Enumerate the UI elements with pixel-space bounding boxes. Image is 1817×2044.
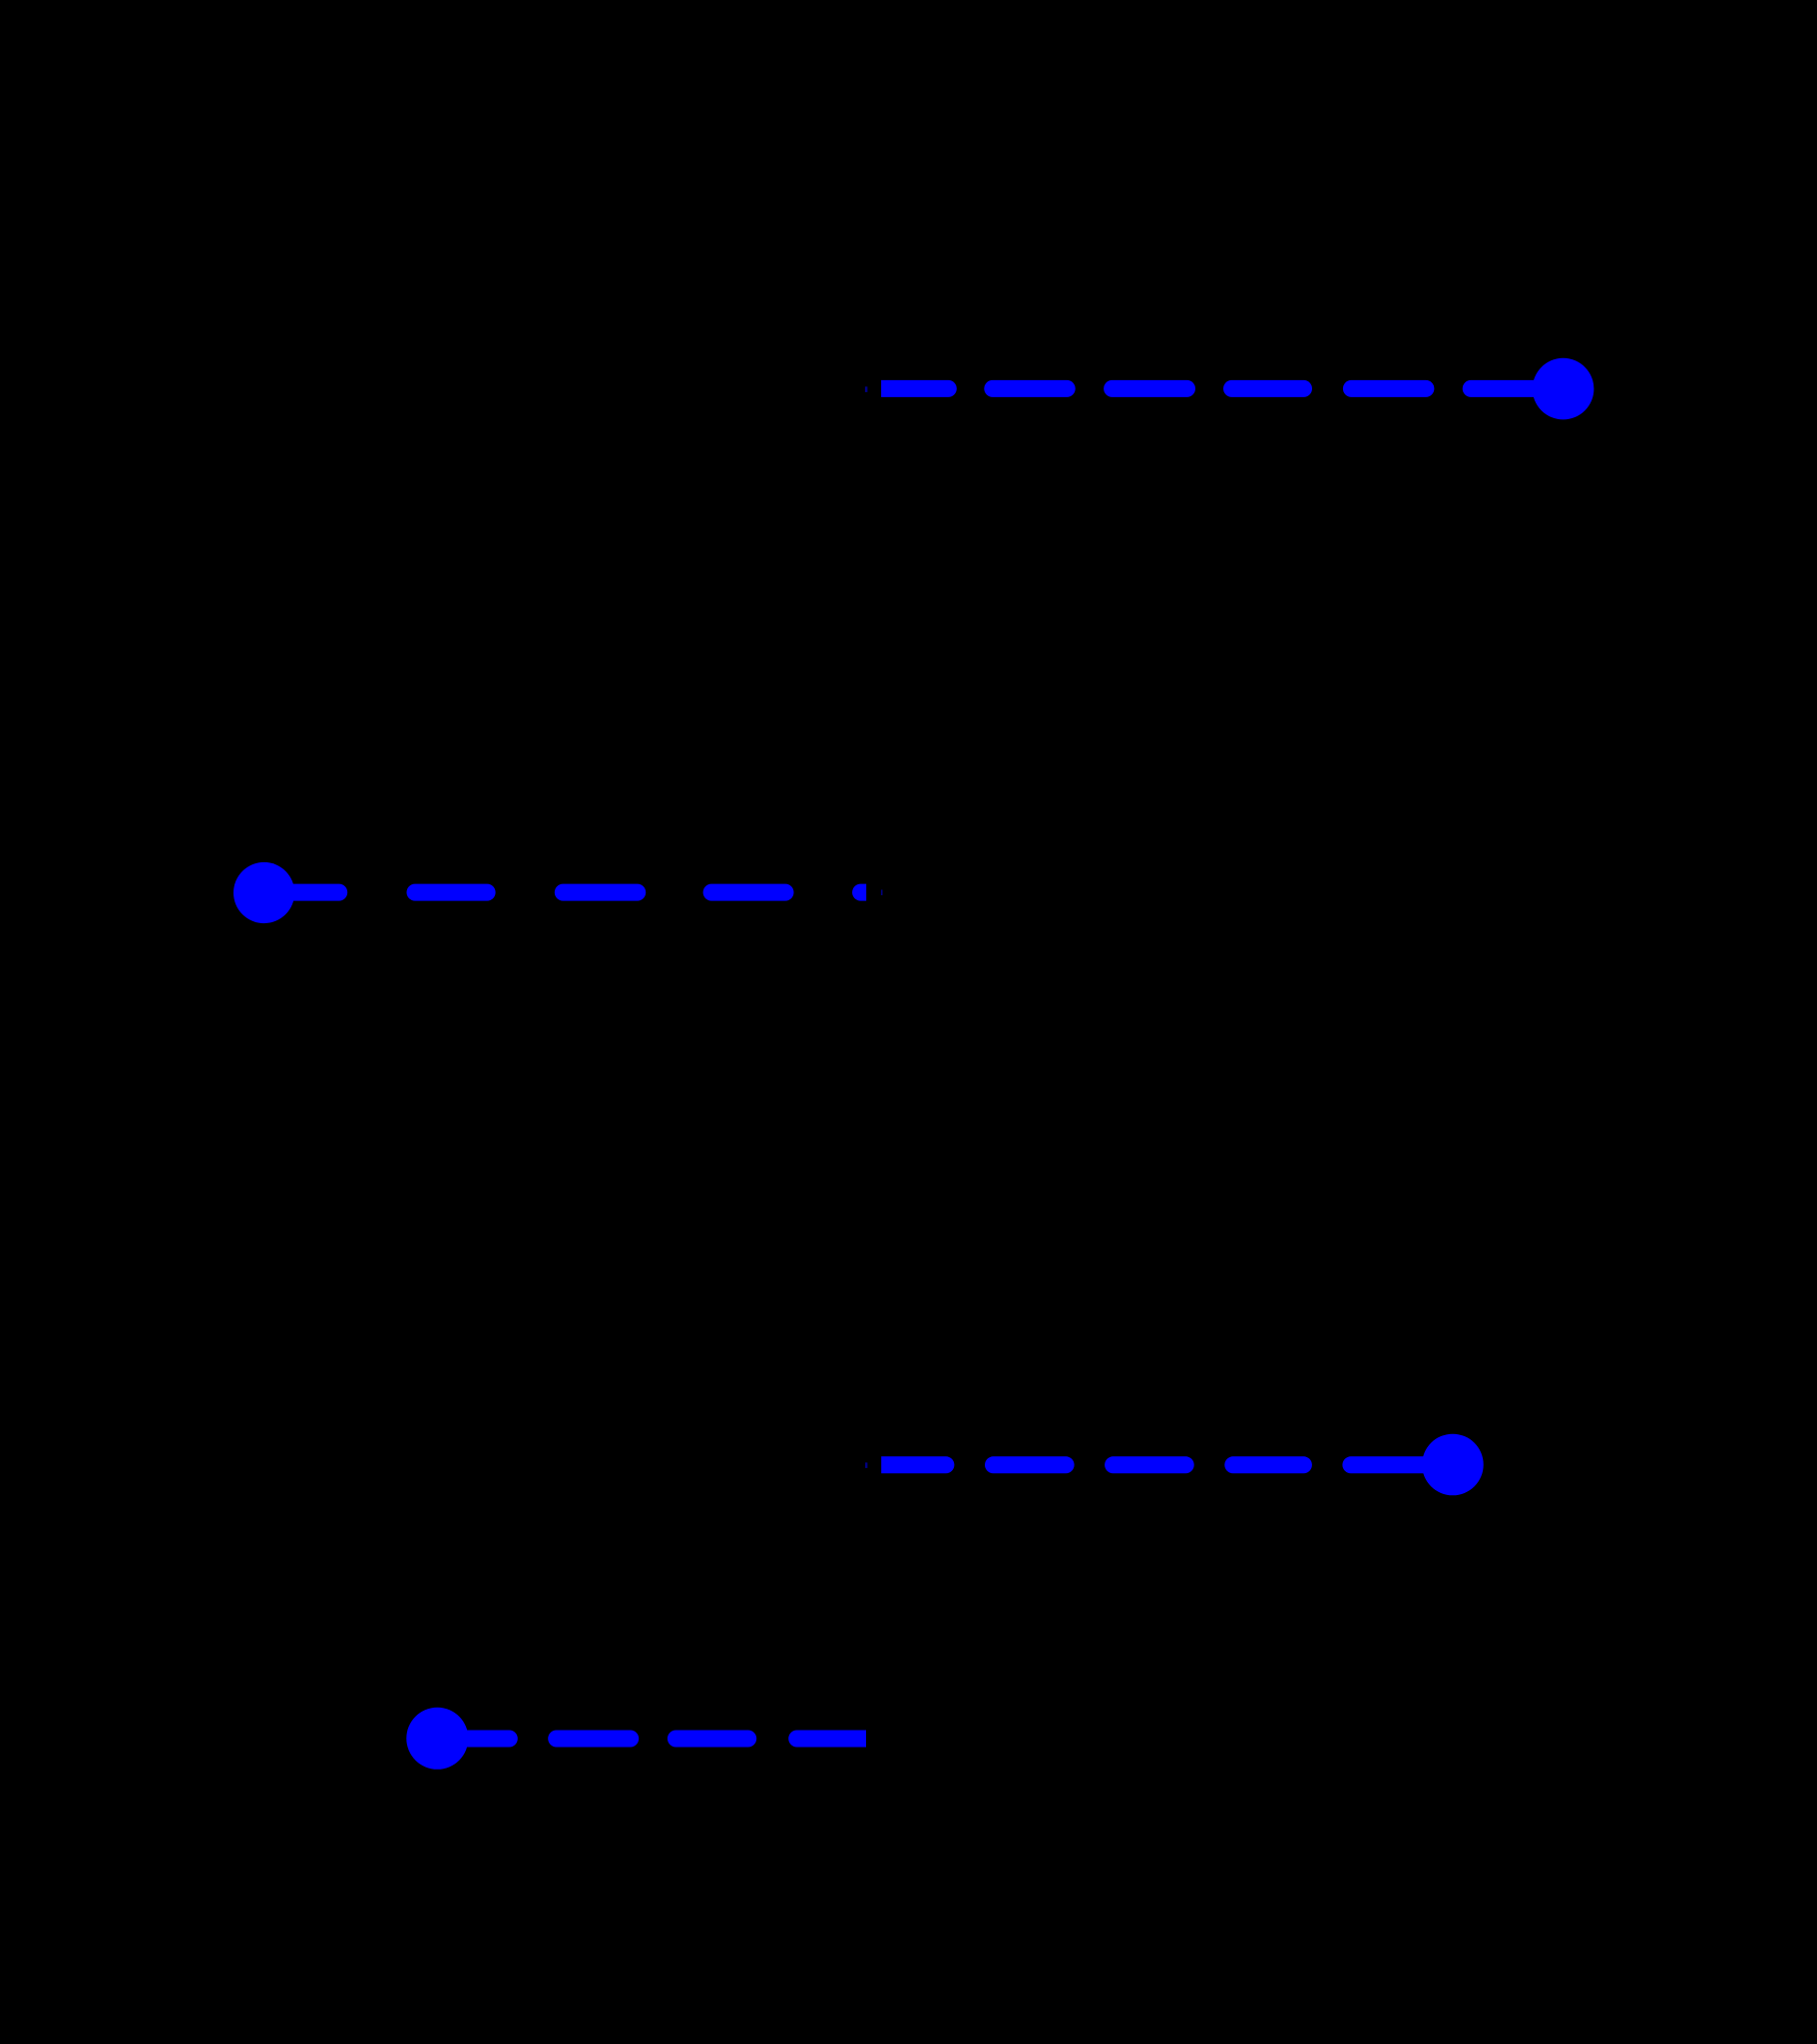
dash 2 line 3 — [994, 1456, 1067, 1473]
series 1 upper segment: blue dashed line y=389 — [865, 380, 1555, 397]
wire dash residue sliver left of black cover, line 3 — [865, 1462, 867, 1468]
dash 3 line 4 — [676, 1731, 747, 1748]
series 2 upper segment: blue dashed line y=1468 — [865, 1456, 1447, 1473]
wire dash residue speck right of black cover, line 2 — [881, 890, 883, 896]
dash 2 line 4 — [557, 1731, 631, 1748]
dash 1 line 1 (flat-cut left edge) — [881, 380, 957, 397]
dash 5 line 2 (flat-cut right edge) — [852, 884, 866, 901]
marker dot left end line 4 — [406, 1708, 468, 1770]
dash 4 line 2 — [711, 884, 785, 901]
dash 4 line 3 — [1233, 1456, 1304, 1473]
dash 5 line 3 (runs under marker) — [1351, 1456, 1447, 1473]
marker dot right end line 3 — [1422, 1434, 1484, 1496]
dash 5 line 1 — [1351, 380, 1426, 397]
marker dot left end line 2 — [233, 862, 294, 923]
dash 1 line 3 (flat-cut left edge) — [881, 1456, 954, 1473]
series 2 lower segment: blue dashed line y=1742 — [437, 1731, 866, 1748]
dash stub from marker, line 2 — [264, 884, 339, 901]
dash 4 line 4 (flat-cut right edge) — [788, 1731, 866, 1748]
dash 2 line 1 — [993, 380, 1067, 397]
dash 6 line 1 (runs under marker) — [1471, 380, 1555, 397]
dash 3 line 3 — [1114, 1456, 1186, 1473]
series 1 lower segment: blue dashed line y=894 — [264, 884, 883, 901]
dash 4 line 1 — [1232, 380, 1304, 397]
dash 3 line 1 — [1113, 380, 1187, 397]
wire dash residue sliver left of black cover, line 1 — [865, 386, 868, 392]
marker dot right end line 1 — [1533, 358, 1594, 420]
dash 2 line 2 — [415, 884, 487, 901]
dash 3 line 2 — [563, 884, 637, 901]
dash stub from marker, line 4 — [437, 1731, 509, 1748]
